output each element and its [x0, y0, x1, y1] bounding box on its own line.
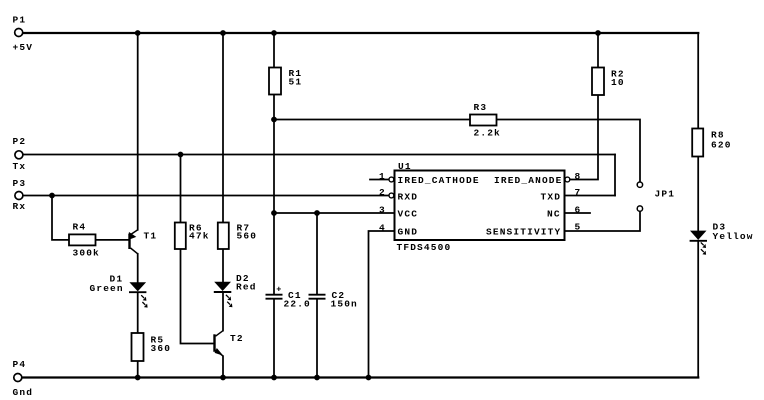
- resistor R1: [269, 68, 302, 95]
- svg-text:8: 8: [575, 171, 582, 182]
- node Rx-R4: [49, 193, 55, 199]
- wire right rail top segment: [697, 33, 699, 129]
- wire GND pin4 to rail: [369, 231, 395, 378]
- wire bottom Gnd rail: [22, 376, 698, 378]
- svg-text:2: 2: [379, 187, 386, 198]
- wire top +5V rail: [23, 32, 698, 34]
- resistor R3: [470, 102, 501, 139]
- capacitor C2: [309, 290, 358, 310]
- port P2: [13, 136, 27, 172]
- svg-text:R4: R4: [73, 222, 87, 233]
- svg-text:GND: GND: [398, 227, 419, 238]
- node gnd-D: [271, 375, 277, 381]
- resistor R2: [592, 68, 625, 96]
- svg-text:360: 360: [151, 343, 172, 354]
- LED D1: [90, 274, 148, 308]
- pin 2 bubble: [389, 193, 394, 198]
- wire Rx drop to R4: [52, 196, 69, 240]
- jumper JP1: [637, 182, 675, 211]
- wire R5 to rail: [137, 361, 139, 378]
- svg-text:VCC: VCC: [398, 209, 419, 220]
- svg-text:6: 6: [575, 205, 582, 216]
- wire R6 to T2 base: [181, 249, 214, 344]
- node gnd-A: [135, 375, 141, 381]
- node VCC-D: [271, 210, 277, 216]
- svg-text:IRED_CATHODE: IRED_CATHODE: [398, 175, 480, 186]
- svg-text:22.0: 22.0: [284, 299, 311, 310]
- wire P2 Tx line: [24, 154, 616, 156]
- wire pin6 NC stub: [565, 212, 591, 214]
- svg-text:2.2k: 2.2k: [474, 128, 501, 139]
- node rail-R2: [595, 30, 601, 36]
- wire P3 Rx line to pin2: [24, 195, 389, 197]
- LED D2: [214, 273, 257, 307]
- wire pin5 SENSITIVITY to JP1: [565, 212, 641, 231]
- wire R2 to rail: [597, 33, 599, 68]
- wire pin8 to R2: [570, 95, 598, 180]
- svg-text:4: 4: [379, 223, 386, 234]
- wire D3 to bottom rail: [697, 241, 699, 378]
- svg-text:Rx: Rx: [13, 201, 27, 212]
- wire R1 to R3: [274, 119, 470, 121]
- resistor R5: [132, 333, 172, 361]
- IC U1 TFDS4500: [379, 161, 581, 253]
- svg-text:560: 560: [237, 231, 258, 242]
- svg-text:150n: 150n: [331, 299, 358, 310]
- node gnd-C: [220, 375, 226, 381]
- wire C1 to rail: [273, 299, 275, 377]
- svg-text:300k: 300k: [73, 248, 100, 259]
- port P3: [13, 178, 27, 212]
- node rail-D: [271, 30, 277, 36]
- wire R4 to T1 base: [96, 239, 129, 241]
- svg-text:SENSITIVITY: SENSITIVITY: [486, 227, 561, 238]
- node gnd-C2: [314, 375, 320, 381]
- node rail-A: [135, 30, 141, 36]
- svg-text:Yellow: Yellow: [713, 231, 754, 242]
- svg-text:P4: P4: [13, 359, 27, 370]
- wire C2 to rail: [316, 299, 318, 377]
- wire net A rail to T1: [137, 33, 139, 230]
- svg-text:Green: Green: [90, 283, 124, 294]
- transistor T1: [129, 230, 157, 254]
- svg-text:51: 51: [289, 77, 303, 88]
- wire VCC line pin3: [274, 212, 395, 214]
- svg-text:1: 1: [379, 171, 386, 182]
- wire Tx drop to pin7: [614, 155, 616, 196]
- svg-text:RXD: RXD: [398, 192, 419, 203]
- svg-text:Tx: Tx: [13, 161, 27, 172]
- svg-text:3: 3: [379, 205, 386, 216]
- svg-text:620: 620: [711, 140, 732, 151]
- port P1: [13, 15, 34, 54]
- wire rail to R1: [273, 33, 275, 68]
- svg-text:P3: P3: [13, 178, 27, 189]
- svg-text:+: +: [276, 284, 282, 294]
- svg-text:JP1: JP1: [655, 189, 676, 200]
- pin 1 bubble: [389, 177, 394, 182]
- svg-text:Gnd: Gnd: [13, 387, 34, 398]
- wire R8 to D3: [697, 157, 699, 231]
- wire Tx to R6: [180, 155, 182, 223]
- svg-text:IRED_ANODE: IRED_ANODE: [494, 175, 563, 186]
- svg-text:U1: U1: [398, 161, 412, 172]
- wire pin7 TXD stub: [565, 195, 616, 197]
- port P4: [13, 359, 34, 398]
- svg-text:T1: T1: [144, 231, 158, 242]
- svg-text:T2: T2: [230, 333, 244, 344]
- resistor R6: [175, 223, 210, 250]
- wire T1 to D1: [137, 254, 139, 283]
- node gnd-U1: [366, 375, 372, 381]
- wire R1 to C1: [273, 95, 275, 295]
- wire R3 to JP1 corner: [497, 120, 641, 182]
- node VCC-C2: [314, 210, 320, 216]
- node Tx-R6: [178, 152, 184, 158]
- svg-text:P2: P2: [13, 136, 27, 147]
- svg-text:5: 5: [575, 222, 582, 233]
- svg-text:+5V: +5V: [13, 42, 34, 53]
- resistor R7: [218, 223, 257, 250]
- svg-text:47k: 47k: [189, 231, 210, 242]
- svg-text:R3: R3: [474, 102, 488, 113]
- wire pin1 stub: [370, 179, 389, 181]
- transistor T2: [215, 331, 244, 356]
- svg-text:NC: NC: [547, 209, 561, 220]
- svg-text:TXD: TXD: [541, 192, 562, 203]
- capacitor C1: [266, 284, 311, 309]
- resistor R4: [69, 222, 100, 259]
- pin 8 bubble: [565, 177, 570, 182]
- wire R7 to D2: [222, 249, 224, 282]
- wire D1 to R5: [137, 293, 139, 333]
- svg-text:7: 7: [575, 187, 582, 198]
- wire C2 drop: [316, 213, 318, 294]
- node rail-C: [220, 30, 226, 36]
- LED D3: [690, 222, 754, 255]
- svg-text:Red: Red: [236, 282, 257, 293]
- resistor R8: [692, 129, 731, 157]
- svg-text:P1: P1: [13, 15, 27, 26]
- wire D2 to T2 collector: [222, 293, 224, 331]
- wire rail to R7: [222, 33, 224, 223]
- node R1-R3: [271, 117, 277, 123]
- svg-text:TFDS4500: TFDS4500: [397, 242, 452, 253]
- wire T2 emitter to rail: [222, 356, 224, 377]
- svg-text:10: 10: [611, 77, 625, 88]
